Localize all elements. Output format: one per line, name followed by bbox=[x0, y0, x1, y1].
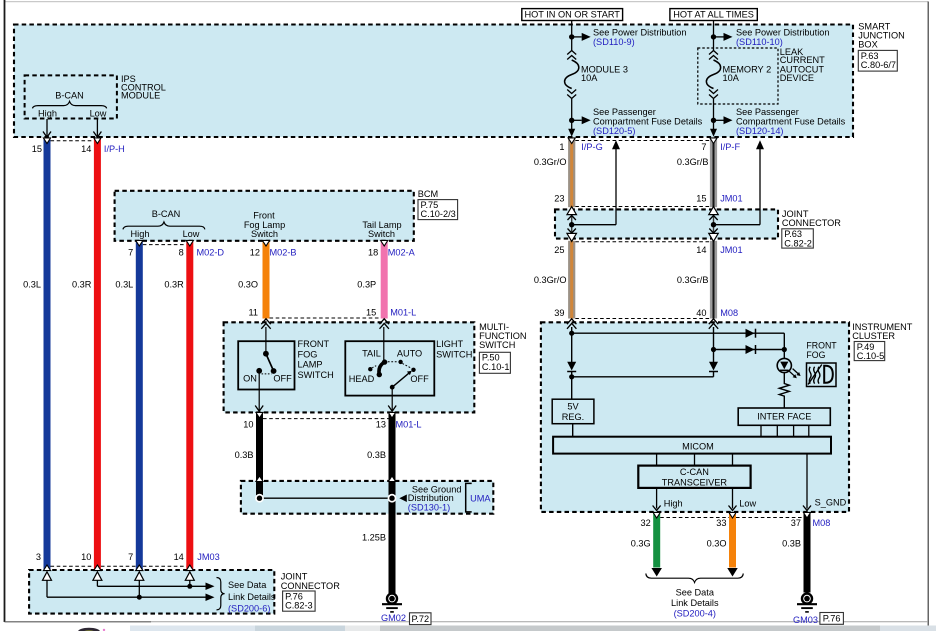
svg-text:Switch: Switch bbox=[251, 229, 278, 239]
svg-text:Low: Low bbox=[90, 109, 107, 119]
svg-text:C.10-2/3: C.10-2/3 bbox=[421, 209, 456, 219]
svg-text:C.10-5: C.10-5 bbox=[857, 351, 885, 361]
svg-text:32: 32 bbox=[640, 518, 650, 528]
svg-text:33: 33 bbox=[716, 518, 726, 528]
svg-text:MICOM: MICOM bbox=[682, 442, 714, 452]
svg-text:M02-B: M02-B bbox=[270, 248, 297, 258]
svg-text:7: 7 bbox=[128, 248, 133, 258]
svg-text:Link Details: Link Details bbox=[228, 592, 276, 602]
svg-text:INTER FACE: INTER FACE bbox=[757, 411, 811, 421]
svg-text:P.76: P.76 bbox=[823, 614, 841, 624]
svg-text:M01-L: M01-L bbox=[396, 420, 422, 430]
svg-text:OFF: OFF bbox=[410, 374, 429, 384]
svg-text:High: High bbox=[131, 229, 150, 239]
svg-text:0.3Gr/O: 0.3Gr/O bbox=[534, 157, 567, 167]
svg-text:HOT AT ALL TIMES: HOT AT ALL TIMES bbox=[673, 10, 754, 20]
svg-text:0.3L: 0.3L bbox=[23, 279, 41, 289]
svg-text:FOG: FOG bbox=[298, 349, 318, 359]
svg-text:10: 10 bbox=[243, 420, 253, 430]
svg-text:0.3B: 0.3B bbox=[782, 539, 801, 549]
svg-text:1: 1 bbox=[559, 142, 564, 152]
svg-text:(SD130-1): (SD130-1) bbox=[408, 502, 450, 512]
svg-text:15: 15 bbox=[696, 194, 706, 204]
svg-text:JOINT: JOINT bbox=[281, 572, 308, 582]
svg-text:0.3Gr/B: 0.3Gr/B bbox=[677, 275, 709, 285]
svg-text:40: 40 bbox=[696, 308, 706, 318]
svg-text:15: 15 bbox=[366, 308, 376, 318]
svg-text:(SD200-6): (SD200-6) bbox=[228, 604, 270, 614]
svg-text:(SD120-5): (SD120-5) bbox=[593, 126, 635, 136]
svg-text:11: 11 bbox=[248, 308, 258, 318]
svg-text:SWITCH: SWITCH bbox=[479, 340, 515, 350]
svg-text:M08: M08 bbox=[720, 308, 738, 318]
svg-text:CONNECTOR: CONNECTOR bbox=[782, 218, 841, 228]
svg-text:B-CAN: B-CAN bbox=[55, 91, 84, 101]
svg-text:High: High bbox=[664, 499, 683, 509]
svg-text:UMA: UMA bbox=[470, 493, 491, 503]
svg-text:(SD110-10): (SD110-10) bbox=[736, 37, 783, 47]
svg-text:0.3G: 0.3G bbox=[631, 539, 651, 549]
svg-text:10A: 10A bbox=[581, 73, 598, 83]
svg-text:10A: 10A bbox=[723, 73, 740, 83]
svg-text:0.3L: 0.3L bbox=[115, 279, 133, 289]
svg-text:P.72: P.72 bbox=[411, 614, 429, 624]
svg-text:M08: M08 bbox=[813, 518, 831, 528]
svg-text:FOG: FOG bbox=[806, 350, 825, 360]
svg-text:JM01: JM01 bbox=[720, 245, 742, 255]
svg-text:18: 18 bbox=[368, 248, 378, 258]
svg-text:Switch: Switch bbox=[368, 229, 395, 239]
svg-text:Link Details: Link Details bbox=[671, 598, 719, 608]
svg-text:14: 14 bbox=[174, 552, 184, 562]
svg-text:B-CAN: B-CAN bbox=[152, 209, 181, 219]
svg-text:C.82-3: C.82-3 bbox=[285, 601, 313, 611]
svg-text:37: 37 bbox=[791, 518, 801, 528]
svg-text:REG.: REG. bbox=[562, 412, 584, 422]
svg-text:FRONT: FRONT bbox=[298, 339, 330, 349]
svg-text:BOX: BOX bbox=[858, 40, 877, 50]
svg-text:0.3B: 0.3B bbox=[235, 450, 254, 460]
svg-text:C.82-2: C.82-2 bbox=[784, 238, 812, 248]
svg-text:SWITCH: SWITCH bbox=[298, 370, 334, 380]
svg-text:CLUSTER: CLUSTER bbox=[852, 331, 895, 341]
svg-text:JM03: JM03 bbox=[197, 552, 219, 562]
svg-text:10: 10 bbox=[81, 552, 91, 562]
svg-text:OFF: OFF bbox=[273, 374, 292, 384]
svg-text:LAMP: LAMP bbox=[298, 360, 323, 370]
svg-text:25: 25 bbox=[554, 245, 564, 255]
svg-text:JM01: JM01 bbox=[720, 194, 742, 204]
svg-text:BCM: BCM bbox=[418, 189, 438, 199]
svg-text:I/P-H: I/P-H bbox=[104, 144, 125, 154]
svg-text:AUTO: AUTO bbox=[397, 349, 422, 359]
svg-text:CONNECTOR: CONNECTOR bbox=[281, 581, 340, 591]
svg-text:0.3R: 0.3R bbox=[164, 279, 184, 289]
svg-text:HEAD: HEAD bbox=[349, 374, 375, 384]
svg-text:M01-L: M01-L bbox=[390, 308, 416, 318]
svg-text:13: 13 bbox=[376, 420, 386, 430]
svg-text:Low: Low bbox=[183, 229, 200, 239]
svg-text:0.3O: 0.3O bbox=[707, 539, 727, 549]
svg-text:C.10-1: C.10-1 bbox=[482, 362, 510, 372]
svg-text:High: High bbox=[38, 109, 57, 119]
svg-text:1.25B: 1.25B bbox=[362, 533, 386, 543]
svg-text:C-CAN: C-CAN bbox=[680, 467, 709, 477]
svg-text:(SD200-4): (SD200-4) bbox=[674, 608, 716, 618]
svg-text:0.3O: 0.3O bbox=[238, 279, 258, 289]
svg-text:5V: 5V bbox=[567, 402, 579, 412]
svg-text:7: 7 bbox=[128, 552, 133, 562]
svg-text:TAIL: TAIL bbox=[362, 349, 381, 359]
svg-text:0.3Gr/B: 0.3Gr/B bbox=[677, 157, 709, 167]
svg-text:I/P-G: I/P-G bbox=[581, 142, 602, 152]
svg-text:GM02: GM02 bbox=[381, 613, 406, 623]
svg-text:HOT IN ON OR START: HOT IN ON OR START bbox=[524, 10, 620, 20]
svg-text:M02-D: M02-D bbox=[197, 248, 225, 258]
svg-text:S_GND: S_GND bbox=[815, 498, 847, 508]
svg-text:ON: ON bbox=[243, 374, 257, 384]
svg-text:8: 8 bbox=[179, 248, 184, 258]
svg-text:14: 14 bbox=[81, 144, 91, 154]
svg-text:GM03: GM03 bbox=[793, 615, 818, 625]
svg-text:LIGHT: LIGHT bbox=[436, 339, 463, 349]
svg-text:0.3B: 0.3B bbox=[367, 450, 386, 460]
svg-text:3: 3 bbox=[36, 552, 41, 562]
svg-text:0.3R: 0.3R bbox=[72, 279, 92, 289]
svg-text:(SD110-9): (SD110-9) bbox=[593, 37, 635, 47]
svg-text:0.3Gr/O: 0.3Gr/O bbox=[534, 275, 567, 285]
svg-text:0.3P: 0.3P bbox=[357, 279, 376, 289]
svg-text:SWITCH: SWITCH bbox=[436, 349, 472, 359]
svg-text:See Data: See Data bbox=[228, 580, 267, 590]
svg-text:M02-A: M02-A bbox=[388, 248, 416, 258]
svg-text:(SD120-14): (SD120-14) bbox=[736, 126, 784, 136]
svg-text:MODULE: MODULE bbox=[121, 91, 160, 101]
svg-text:TRANSCEIVER: TRANSCEIVER bbox=[662, 477, 728, 487]
svg-text:DEVICE: DEVICE bbox=[780, 73, 814, 83]
svg-text:Low: Low bbox=[739, 499, 756, 509]
svg-text:See Data: See Data bbox=[676, 588, 715, 598]
svg-text:15: 15 bbox=[32, 144, 42, 154]
svg-text:14: 14 bbox=[696, 245, 706, 255]
svg-text:23: 23 bbox=[554, 194, 564, 204]
svg-text:12: 12 bbox=[250, 248, 260, 258]
svg-text:39: 39 bbox=[554, 308, 564, 318]
svg-text:7: 7 bbox=[701, 142, 706, 152]
svg-text:C.80-6/7: C.80-6/7 bbox=[861, 60, 896, 70]
svg-text:I/P-F: I/P-F bbox=[720, 142, 740, 152]
